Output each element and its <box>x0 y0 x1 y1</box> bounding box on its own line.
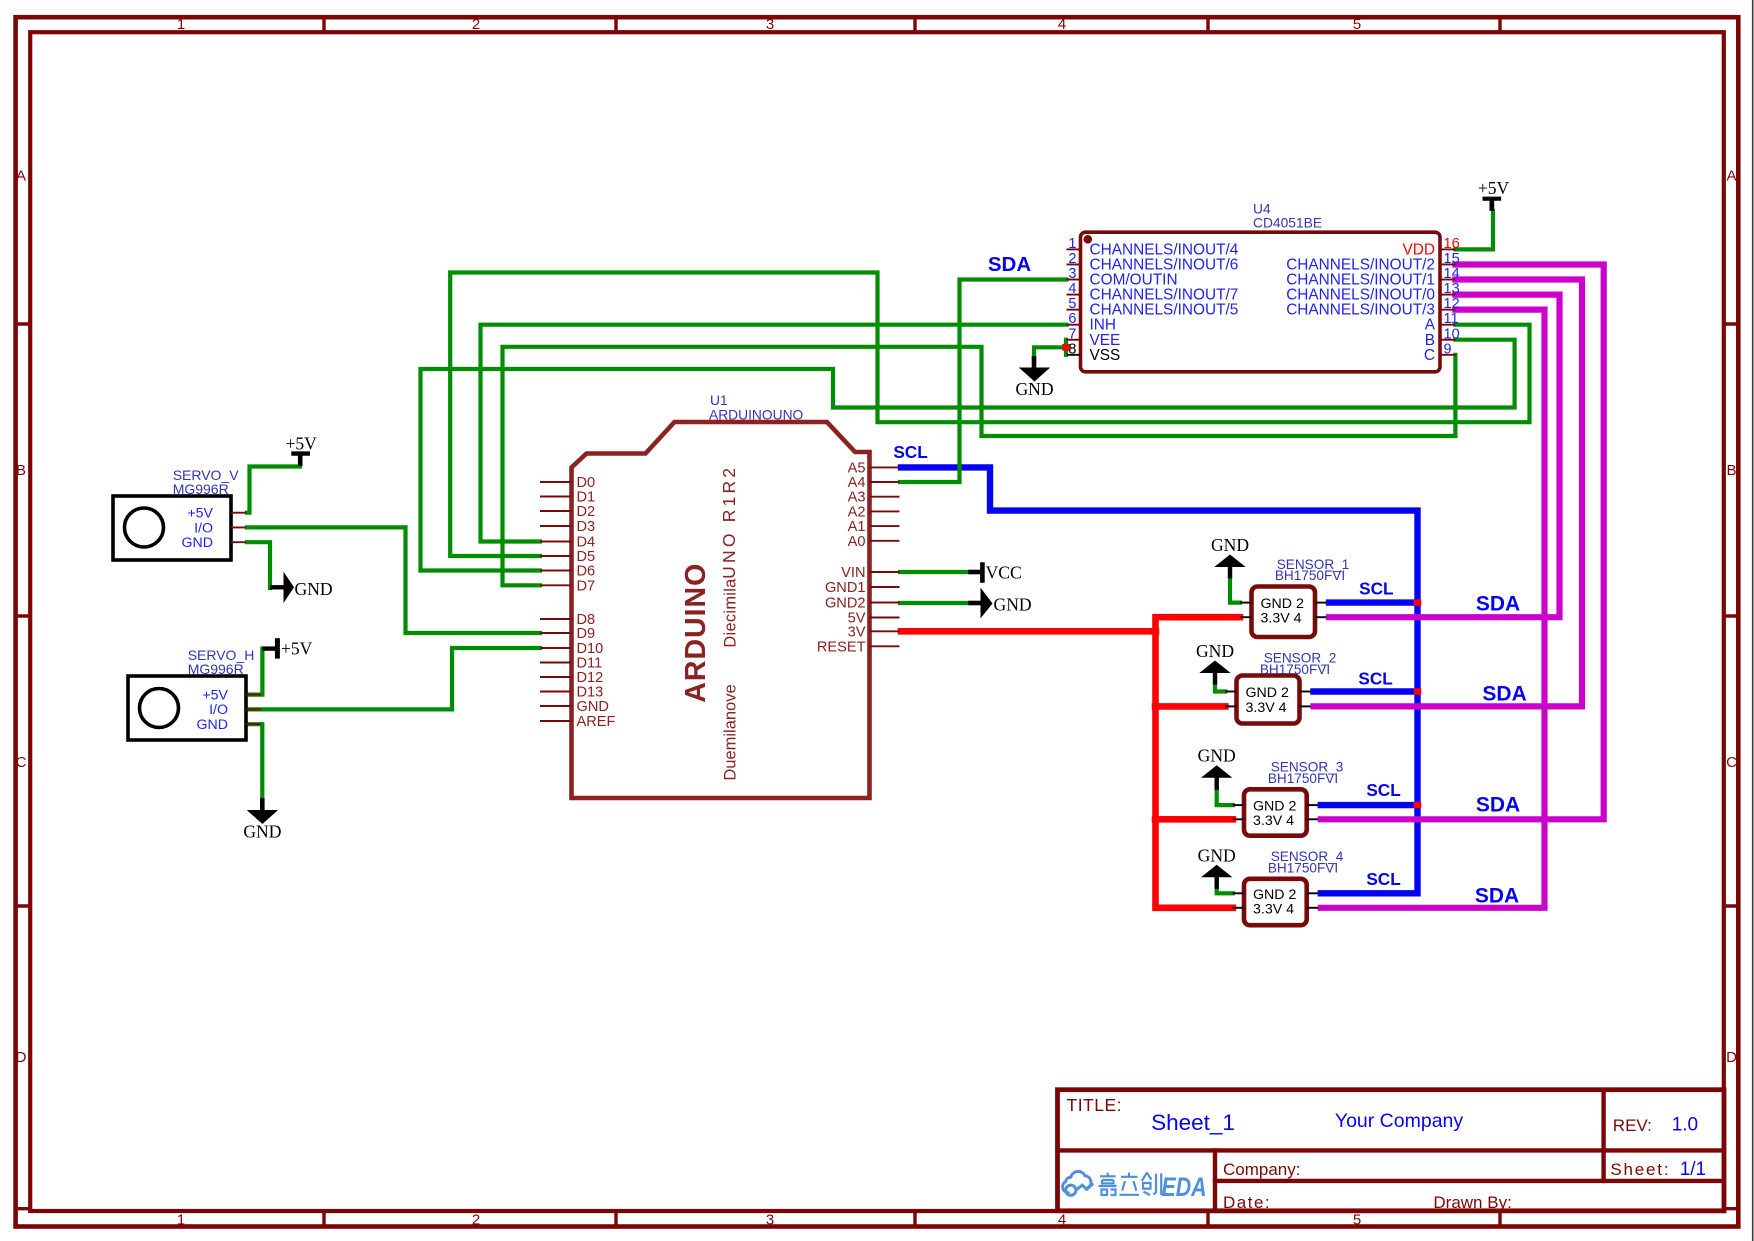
svg-text:4: 4 <box>1068 281 1076 297</box>
svg-text:3.3V 4: 3.3V 4 <box>1261 611 1302 627</box>
svg-text:3.3V 4: 3.3V 4 <box>1253 901 1294 917</box>
svg-text:D6: D6 <box>577 564 596 580</box>
svg-text:1/1: 1/1 <box>1680 1159 1706 1180</box>
svg-text:SCL: SCL <box>1366 780 1400 800</box>
svg-text:GND 2: GND 2 <box>1261 596 1304 612</box>
svg-text:BH1750FVI: BH1750FVI <box>1268 771 1338 786</box>
svg-text:BH1750FVI: BH1750FVI <box>1268 861 1338 876</box>
svg-text:SDA: SDA <box>1476 794 1520 817</box>
svg-text:D: D <box>1726 1049 1737 1066</box>
svg-text:SCL: SCL <box>1359 579 1393 599</box>
svg-text:2: 2 <box>472 1212 480 1229</box>
svg-text:Company:: Company: <box>1223 1160 1300 1179</box>
svg-text:A5: A5 <box>848 460 866 476</box>
svg-text:GND: GND <box>1211 535 1249 555</box>
svg-text:D3: D3 <box>577 519 596 535</box>
svg-text:EDA: EDA <box>1162 1172 1207 1202</box>
svg-text:C: C <box>1726 754 1737 771</box>
svg-text:Date:: Date: <box>1223 1193 1271 1212</box>
svg-text:GND: GND <box>196 717 228 733</box>
svg-text:1: 1 <box>177 16 185 33</box>
svg-text:SDA: SDA <box>1476 593 1520 616</box>
svg-text:SDA: SDA <box>1482 683 1526 706</box>
svg-text:+5V: +5V <box>202 687 228 703</box>
svg-text:13: 13 <box>1444 281 1460 297</box>
svg-text:GND 2: GND 2 <box>1246 685 1289 701</box>
svg-text:6: 6 <box>1068 311 1076 327</box>
svg-text:GND: GND <box>577 699 609 715</box>
svg-text:5: 5 <box>1068 296 1076 312</box>
svg-text:SCL: SCL <box>1358 669 1392 689</box>
svg-text:U4: U4 <box>1253 202 1271 217</box>
svg-text:MG996R: MG996R <box>188 661 244 677</box>
svg-text:8: 8 <box>1068 341 1076 357</box>
svg-text:D: D <box>16 1049 27 1066</box>
svg-text:GND: GND <box>994 595 1032 615</box>
svg-text:TITLE:: TITLE: <box>1067 1095 1123 1115</box>
svg-text:GND: GND <box>243 822 281 842</box>
svg-text:7: 7 <box>1068 326 1076 342</box>
svg-text:3: 3 <box>766 1212 774 1229</box>
svg-text:C: C <box>16 754 27 771</box>
svg-text:12: 12 <box>1444 296 1460 312</box>
svg-text:2: 2 <box>472 16 480 33</box>
svg-text:3.3V 4: 3.3V 4 <box>1246 700 1287 716</box>
svg-text:GND: GND <box>181 535 213 551</box>
svg-text:B: B <box>1726 462 1736 479</box>
svg-text:+5V: +5V <box>286 434 318 454</box>
svg-text:D2: D2 <box>577 504 596 520</box>
svg-text:1.0: 1.0 <box>1672 1115 1698 1136</box>
svg-text:VSS: VSS <box>1090 347 1121 364</box>
svg-text:MG996R: MG996R <box>173 481 229 497</box>
svg-text:+5V: +5V <box>281 639 313 659</box>
svg-text:5: 5 <box>1353 16 1361 33</box>
svg-text:REV:: REV: <box>1613 1116 1652 1135</box>
svg-text:CHANNELS/INOUT/3: CHANNELS/INOUT/3 <box>1286 302 1435 319</box>
svg-text:SDA: SDA <box>1475 885 1519 908</box>
svg-text:Sheet:: Sheet: <box>1610 1160 1670 1179</box>
svg-text:3V: 3V <box>848 624 866 640</box>
svg-text:A: A <box>16 167 26 184</box>
svg-text:Drawn By:: Drawn By: <box>1433 1193 1511 1212</box>
svg-text:Sheet_1: Sheet_1 <box>1151 1110 1235 1135</box>
svg-text:4: 4 <box>1058 16 1066 33</box>
svg-text:A0: A0 <box>848 534 866 550</box>
svg-text:UNO R1R2: UNO R1R2 <box>719 465 739 579</box>
svg-text:ARDUINOUNO: ARDUINOUNO <box>709 408 804 423</box>
svg-text:Duemilanove: Duemilanove <box>722 684 740 780</box>
svg-text:BH1750FVI: BH1750FVI <box>1275 568 1345 583</box>
svg-text:D9: D9 <box>577 626 596 642</box>
svg-text:VCC: VCC <box>986 563 1022 583</box>
svg-text:GND: GND <box>1196 641 1234 661</box>
svg-text:GND: GND <box>1198 746 1236 766</box>
svg-text:1: 1 <box>1068 236 1076 252</box>
svg-text:D7: D7 <box>577 578 596 594</box>
svg-text:C: C <box>1424 347 1435 364</box>
svg-text:B: B <box>16 462 26 479</box>
svg-text:5: 5 <box>1353 1212 1361 1229</box>
svg-text:16: 16 <box>1444 236 1460 252</box>
svg-text:U1: U1 <box>710 393 728 408</box>
svg-text:VIN: VIN <box>841 565 865 581</box>
svg-text:4: 4 <box>1058 1212 1066 1229</box>
svg-text:GND1: GND1 <box>825 580 866 596</box>
svg-text:3: 3 <box>766 16 774 33</box>
svg-text:I/O: I/O <box>209 702 228 718</box>
svg-text:Your Company: Your Company <box>1335 1110 1464 1132</box>
svg-text:10: 10 <box>1444 326 1460 342</box>
svg-text:GND: GND <box>1015 379 1053 399</box>
svg-text:3.3V 4: 3.3V 4 <box>1253 813 1294 829</box>
svg-text:A: A <box>1726 167 1736 184</box>
svg-text:A4: A4 <box>848 475 866 491</box>
svg-text:GND: GND <box>295 579 333 599</box>
svg-text:15: 15 <box>1444 251 1460 267</box>
svg-text:GND2: GND2 <box>825 596 866 612</box>
svg-text:AREF: AREF <box>577 714 616 730</box>
svg-text:GND: GND <box>1198 845 1236 865</box>
svg-text:SCL: SCL <box>1366 869 1400 889</box>
svg-text:1: 1 <box>177 1212 185 1229</box>
svg-text:14: 14 <box>1444 266 1460 282</box>
svg-text:ARDUINO: ARDUINO <box>680 563 712 703</box>
svg-text:BH1750FVI: BH1750FVI <box>1260 662 1330 677</box>
svg-text:RESET: RESET <box>817 639 866 655</box>
svg-text:A2: A2 <box>848 504 866 520</box>
svg-text:A1: A1 <box>848 519 866 535</box>
svg-text:2: 2 <box>1068 251 1076 267</box>
svg-text:I/O: I/O <box>194 520 213 536</box>
svg-text:11: 11 <box>1444 311 1459 327</box>
svg-text:3: 3 <box>1068 266 1076 282</box>
svg-text:CD4051BE: CD4051BE <box>1253 216 1322 231</box>
svg-text:+5V: +5V <box>187 506 213 522</box>
svg-text:SCL: SCL <box>893 442 927 462</box>
svg-text:9: 9 <box>1444 341 1452 357</box>
svg-text:A3: A3 <box>848 490 866 506</box>
svg-text:Diecimila: Diecimila <box>722 578 740 648</box>
svg-text:SDA: SDA <box>988 253 1031 276</box>
svg-text:+5V: +5V <box>1478 178 1510 198</box>
